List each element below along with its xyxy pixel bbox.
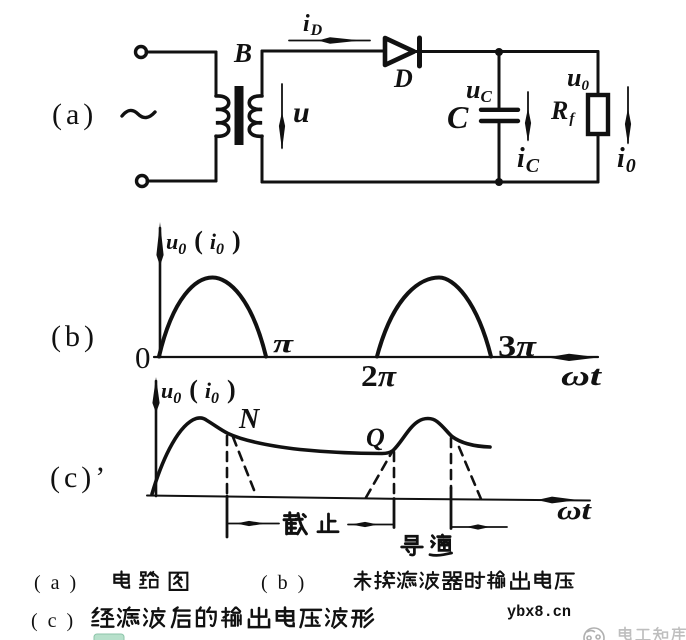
plot b x-axis bbox=[154, 356, 598, 358]
caption text: filtered output voltage waveform bbox=[92, 608, 113, 627]
tick below axis at Q bbox=[393, 499, 396, 528]
wire capacitor bottom lead bbox=[498, 123, 501, 182]
dashed diagonal before Q bbox=[366, 452, 392, 498]
plot b hump 2 (2pi to 3pi) bbox=[377, 278, 491, 357]
capacitor C bottom plate bbox=[481, 119, 518, 123]
plot c y-axis bbox=[155, 381, 158, 496]
svg-text:(c): (c) bbox=[31, 610, 83, 632]
wire capacitor top lead bbox=[498, 52, 501, 108]
wire top horizontal to diode bbox=[262, 50, 385, 53]
svg-text:u: u bbox=[293, 96, 310, 129]
arrow i_0 (load current, down) bbox=[627, 87, 629, 143]
cutoff interval left arrow bbox=[229, 523, 280, 525]
svg-text:u0: u0 bbox=[567, 63, 589, 94]
arrow i_C (capacitor current, down) bbox=[527, 92, 529, 140]
svg-text:uC: uC bbox=[466, 75, 492, 106]
svg-text:Q: Q bbox=[366, 423, 385, 452]
caption text: output voltage without filter bbox=[355, 571, 371, 589]
plot b y-axis bbox=[159, 228, 162, 357]
caption text dian-lu-tu (circuit diagram) bbox=[114, 571, 129, 587]
grey watermark text dian-gong-zhi-ku bbox=[620, 627, 686, 640]
svg-text:π: π bbox=[273, 329, 294, 358]
dashed diagonal after second hump bbox=[459, 447, 481, 499]
terminal T2 (bottom-left input) bbox=[137, 176, 148, 187]
transformer primary winding bbox=[216, 96, 229, 136]
svg-text:iD: iD bbox=[303, 11, 323, 39]
wire resistor bottom lead bbox=[597, 134, 600, 182]
dashed vertical at second tangent bbox=[450, 438, 453, 488]
annotation text dao-tong (conduction) bbox=[402, 536, 423, 555]
svg-text:ybx8.cn: ybx8.cn bbox=[507, 603, 571, 621]
svg-text:C: C bbox=[447, 99, 469, 135]
plot c x-axis bbox=[147, 496, 590, 501]
wire top-left horizontal bbox=[146, 51, 216, 54]
resistor Rf body bbox=[588, 95, 608, 134]
svg-text:u0(i0): u0(i0) bbox=[161, 375, 236, 407]
svg-text:(b): (b) bbox=[261, 572, 314, 594]
transformer secondary winding bbox=[249, 96, 262, 136]
plot b hump 1 (0 to pi) bbox=[159, 278, 266, 357]
capacitor C top plate bbox=[481, 108, 518, 112]
plot c y-axis arrowhead bbox=[152, 377, 159, 413]
svg-text:N: N bbox=[238, 404, 261, 435]
svg-text:2π: 2π bbox=[361, 358, 397, 393]
svg-text:ωt: ωt bbox=[557, 496, 592, 525]
tick below axis at N bbox=[226, 496, 229, 537]
plot c filtered output curve bbox=[152, 418, 490, 494]
svg-text:0: 0 bbox=[135, 340, 151, 375]
wire primary vertical top bbox=[215, 52, 218, 96]
wire secondary vertical top bbox=[261, 51, 264, 96]
svg-text:Rf: Rf bbox=[550, 96, 576, 127]
node dot bottom bbox=[495, 178, 503, 186]
annotation text jie-zhi (cutoff) bbox=[284, 513, 306, 534]
plot b x-axis arrowhead bbox=[547, 354, 599, 361]
svg-text:3π: 3π bbox=[498, 328, 537, 363]
conduction right boundary arrow bbox=[452, 526, 508, 528]
arrow i_D (current into diode) bbox=[289, 40, 370, 42]
svg-text:B: B bbox=[233, 38, 252, 68]
svg-text:(c)’: (c)’ bbox=[50, 461, 109, 494]
terminal T1 (top-left input) bbox=[136, 47, 147, 58]
cutoff interval right arrow bbox=[348, 524, 394, 526]
diode D cathode bar bbox=[417, 38, 422, 66]
wire primary vertical bottom bbox=[215, 136, 218, 181]
tick below axis at second tangent bbox=[450, 488, 453, 529]
svg-text:iC: iC bbox=[517, 143, 540, 177]
plot c x-axis arrowhead bbox=[537, 497, 578, 504]
dashed vertical at N bbox=[226, 436, 229, 495]
transformer core bbox=[235, 86, 244, 145]
svg-text:(a): (a) bbox=[34, 572, 86, 594]
wire secondary vertical bottom bbox=[261, 136, 264, 182]
arrow u (secondary voltage, down) bbox=[281, 84, 283, 148]
dashed vertical at Q bbox=[393, 452, 396, 498]
svg-text:i0: i0 bbox=[617, 143, 636, 177]
green highlight box (cut at bottom) bbox=[94, 634, 124, 640]
diode D triangle bbox=[385, 38, 414, 65]
wire bottom-left horizontal bbox=[147, 180, 216, 183]
wire right vertical top (to resistor) bbox=[597, 52, 600, 95]
node dot top (capacitor junction) bbox=[495, 48, 503, 56]
svg-text:u0(i0): u0(i0) bbox=[166, 226, 241, 258]
dashed diagonal after N bbox=[233, 437, 256, 495]
svg-text:(a): (a) bbox=[52, 98, 97, 131]
svg-text:(b): (b) bbox=[51, 320, 98, 353]
wire diode to top-right corner bbox=[414, 50, 598, 53]
AC source tilde bbox=[122, 110, 155, 117]
svg-text:ωt: ωt bbox=[561, 361, 603, 392]
wire bottom horizontal bbox=[262, 181, 598, 184]
svg-text:D: D bbox=[393, 64, 413, 93]
grey watermark logo bbox=[584, 628, 604, 640]
plot b y-axis arrowhead bbox=[156, 222, 163, 266]
